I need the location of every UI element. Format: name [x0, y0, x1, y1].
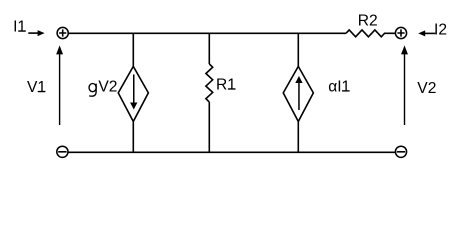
- svg-text:V2: V2: [98, 79, 117, 96]
- svg-text:V1: V1: [27, 79, 46, 96]
- svg-text:I1: I1: [13, 19, 26, 36]
- svg-text:I2: I2: [434, 21, 447, 38]
- svg-text:V2: V2: [417, 80, 436, 97]
- svg-text:R1: R1: [216, 77, 236, 94]
- svg-text:αI1: αI1: [328, 79, 350, 96]
- svg-text:R2: R2: [358, 12, 378, 29]
